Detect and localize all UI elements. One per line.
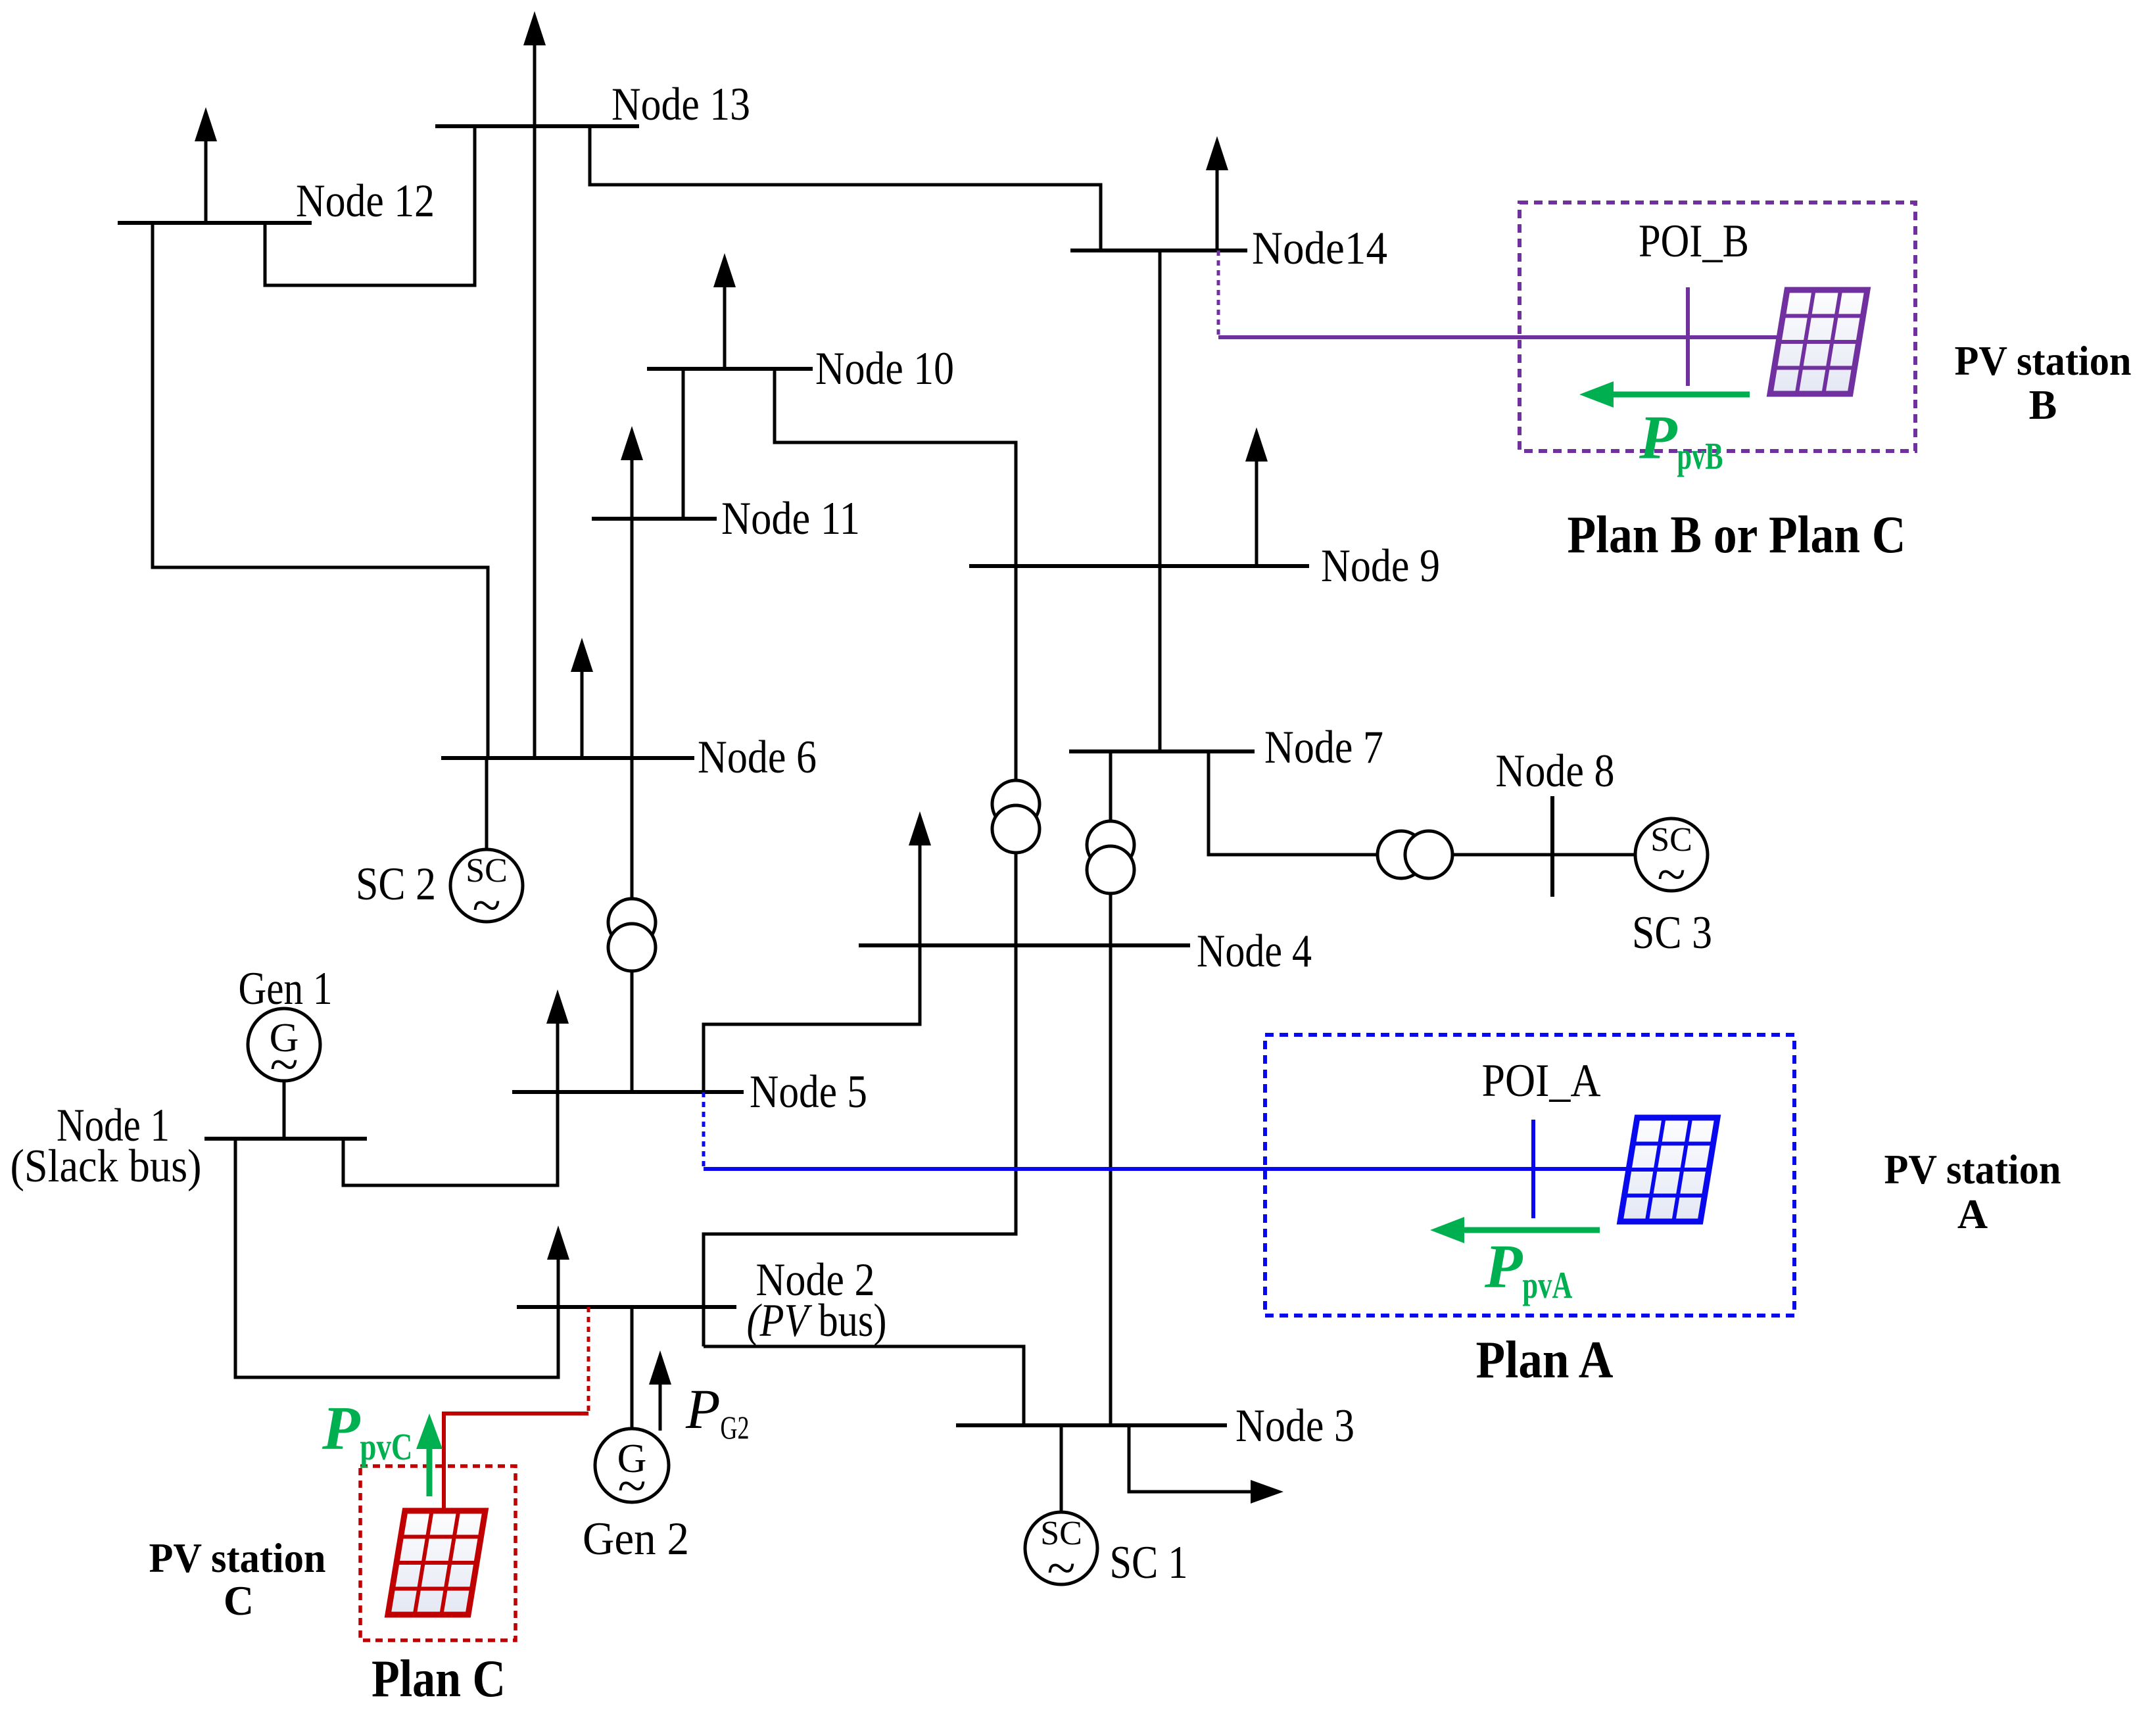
load arrow Node 6: [581, 669, 584, 758]
transformer T7-8: [1377, 831, 1425, 878]
power flow arrow PpvA: [1462, 1227, 1600, 1233]
svg-text:(PV bus): (PV bus): [747, 1295, 887, 1346]
svg-text:Node 9: Node 9: [1321, 540, 1440, 592]
svg-text:~: ~: [1657, 846, 1685, 904]
wire Node10-Node11 vertical: [682, 369, 685, 519]
synchronous condenser SC 3: [1635, 819, 1708, 891]
svg-text:C: C: [224, 1577, 254, 1624]
svg-text:Node 8: Node 8: [1496, 746, 1615, 797]
svg-text:Node 13: Node 13: [611, 79, 750, 130]
svg-text:Node 6: Node 6: [698, 732, 817, 783]
wire Node4-Node2 elbow: [704, 945, 1016, 1346]
bus Node 4: [859, 943, 1190, 947]
svg-text:POI_A: POI_A: [1482, 1055, 1601, 1106]
synchronous condenser SC 2: [450, 849, 523, 922]
wire transformer-Node4-Node3 vertical: [1109, 893, 1113, 1425]
bus Node 8 (vertical): [1550, 796, 1554, 897]
tie line to PV station B (purple): [1218, 335, 1780, 339]
svg-text:~: ~: [472, 877, 500, 935]
svg-text:Plan C: Plan C: [371, 1650, 506, 1708]
svg-text:A: A: [1957, 1191, 1988, 1237]
bus POI_B tick: [1686, 287, 1690, 386]
bus Node 5: [512, 1090, 744, 1094]
svg-text:PV station: PV station: [1884, 1146, 2061, 1193]
svg-text:Plan A: Plan A: [1476, 1331, 1614, 1389]
wire Node14-Node9-Node7 vertical: [1159, 250, 1162, 751]
bus Node 1: [204, 1137, 367, 1141]
wire Node7-Node8 elbow: [1209, 751, 1379, 855]
svg-text:B: B: [2029, 381, 2057, 428]
generation arrow PG2: [659, 1382, 662, 1431]
svg-text:Node 5: Node 5: [750, 1066, 867, 1118]
svg-text:Node 4: Node 4: [1197, 926, 1312, 977]
generator Gen 1: [248, 1009, 320, 1081]
svg-text:Node 10: Node 10: [815, 343, 954, 394]
load arrow Node 11 and wire Node11-Node6: [631, 458, 634, 758]
load arrow Node 13 (top): [533, 43, 537, 126]
load arrow Node 4 and wire Node5-Node4: [919, 843, 922, 945]
wire Node9-Node4 upper: [1015, 566, 1018, 780]
svg-text:Node 3: Node 3: [1235, 1400, 1354, 1452]
wire Node13-Node12 elbow: [265, 126, 475, 285]
wire Node2-Node3 elbow: [704, 1346, 1024, 1425]
svg-text:PV station: PV station: [1955, 337, 2132, 384]
bus Node 9: [969, 564, 1309, 568]
bus Node 6: [441, 756, 694, 760]
load arrow Node 12: [204, 139, 208, 223]
tie line to PV station C (red): [444, 1413, 588, 1511]
svg-text:Node 7: Node 7: [1264, 722, 1383, 773]
wire transformer-SC3: [1452, 853, 1635, 857]
bus Node 11: [592, 517, 717, 521]
load arrow Node 10: [723, 285, 727, 369]
wire Node7-transformer: [1109, 751, 1113, 822]
power flow arrow PpvB: [1611, 392, 1750, 398]
load arrow Node 5: [556, 1021, 560, 1092]
wire Node2-Gen2: [631, 1307, 634, 1429]
wire transformer-Node4: [1015, 853, 1018, 945]
svg-text:PV station: PV station: [149, 1534, 326, 1581]
wire Node6-SC2: [485, 758, 489, 850]
svg-text:Gen 1: Gen 1: [239, 963, 333, 1014]
wire Node13-Node6 vertical: [533, 126, 537, 758]
wire Node1-Node2 elbow: [235, 1139, 558, 1377]
tie line Node14 dotted (purple): [1217, 250, 1220, 337]
svg-text:~: ~: [617, 1458, 646, 1515]
wire Node5-Node4 elbow: [704, 945, 920, 1092]
synchronous condenser SC 1: [1025, 1512, 1097, 1584]
bus Node 12: [118, 221, 312, 225]
transformer T4-9: [992, 780, 1040, 828]
tie line Node2 dotted (red): [587, 1307, 590, 1412]
svg-text:SC 3: SC 3: [1632, 907, 1712, 959]
tie line to PV station A (blue): [704, 1167, 1629, 1171]
wire Node10-Node9 elbow: [775, 369, 1016, 566]
bus Node 10: [647, 367, 813, 371]
svg-text:Plan B or Plan C: Plan B or Plan C: [1568, 506, 1906, 564]
bus Node 3: [956, 1423, 1227, 1427]
dashed boundary Plan A: [1265, 1035, 1794, 1316]
bus Node 14: [1070, 249, 1247, 252]
transformer T4-7: [1087, 821, 1134, 868]
PV panel C: [388, 1511, 485, 1615]
PV panel B: [1770, 290, 1867, 394]
generator Gen 2: [595, 1429, 669, 1502]
svg-text:~: ~: [270, 1036, 298, 1094]
svg-text:Node 12: Node 12: [296, 176, 435, 227]
svg-text:Node 11: Node 11: [721, 493, 860, 544]
wire Node3-SC1: [1060, 1425, 1063, 1512]
svg-text:Node14: Node14: [1252, 223, 1387, 274]
tie line Node5 dotted (blue): [702, 1092, 706, 1169]
wire Gen1-Node1: [283, 1081, 286, 1139]
PV panel A: [1620, 1118, 1717, 1222]
load arrow Node 9: [1255, 459, 1258, 566]
load arrow Node 2: [557, 1257, 560, 1307]
svg-text:~: ~: [1047, 1540, 1075, 1598]
dashed boundary Plan B or C: [1520, 202, 1915, 451]
svg-text:SC 1: SC 1: [1110, 1537, 1188, 1588]
bus Node 13: [435, 124, 639, 128]
wire Node12-Node6 elbow: [153, 223, 488, 758]
bus POI_A tick: [1531, 1120, 1535, 1218]
wire transformer-Node6: [631, 758, 634, 899]
load arrow Node 14: [1216, 168, 1219, 250]
svg-text:(Slack bus): (Slack bus): [11, 1141, 202, 1192]
wire Node13-Node14 elbow: [590, 126, 1101, 250]
dashed boundary Plan C: [360, 1466, 515, 1640]
bus Node 7: [1069, 749, 1255, 753]
svg-text:Gen 2: Gen 2: [583, 1513, 689, 1565]
svg-text:POI_B: POI_B: [1639, 216, 1749, 267]
wire Node1-Node5 elbow: [343, 1092, 558, 1185]
svg-text:SC 2: SC 2: [356, 859, 436, 910]
power flow arrow PpvC: [427, 1446, 433, 1496]
wire Node5-transformer: [631, 971, 634, 1092]
bus Node 2: [517, 1305, 736, 1309]
transformer T5-6: [608, 899, 656, 946]
load arrow Node 3 (right): [1129, 1425, 1251, 1492]
